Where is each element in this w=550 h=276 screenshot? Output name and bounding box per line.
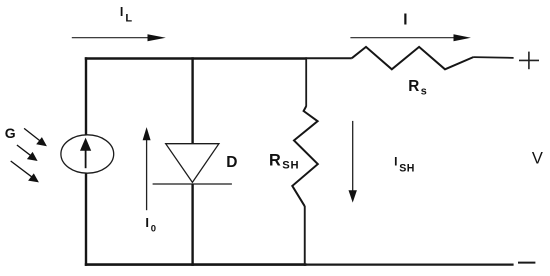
I current arrow: [350, 37, 458, 39]
wire shunt branch vertical bottom: [304, 206, 306, 266]
wire top left horizontal (node A to diode to shunt node): [85, 57, 307, 60]
wire shunt branch vertical top: [305, 57, 307, 106]
wire diode branch vertical top: [191, 57, 193, 144]
terminal plus sign: [519, 59, 539, 61]
ISH current arrow: [352, 121, 354, 192]
svg-text:R: R: [408, 78, 419, 95]
diode D triangle: [166, 144, 219, 183]
svg-text:G: G: [5, 125, 16, 141]
wire left vertical above current source: [85, 57, 87, 135]
current source arrow shaft: [85, 149, 87, 168]
svg-text:D: D: [226, 154, 237, 171]
current source circle: [61, 135, 114, 173]
svg-text:I: I: [403, 11, 407, 28]
svg-text:0: 0: [151, 223, 156, 234]
wire left vertical below current source: [85, 173, 87, 266]
svg-text:V: V: [532, 149, 543, 167]
svg-text:I: I: [394, 155, 397, 169]
svg-text:SH: SH: [282, 160, 299, 172]
svg-text:SH: SH: [399, 162, 415, 174]
irradiance arrow 2: [17, 145, 32, 156]
svg-text:I: I: [120, 5, 123, 19]
diode cathode bar: [153, 183, 232, 185]
irradiance arrow 1: [24, 128, 41, 141]
current source arrowhead: [80, 138, 91, 151]
IL current arrow: [72, 37, 153, 39]
I0 current arrow: [146, 139, 148, 210]
wire diode branch vertical bottom: [191, 184, 193, 266]
svg-text:I: I: [145, 215, 149, 230]
svg-text:s: s: [421, 85, 427, 97]
resistor RSH zigzag: [292, 106, 318, 206]
svg-text:L: L: [125, 12, 132, 24]
wire top middle horizontal (shunt node to Rs): [307, 57, 352, 59]
terminal minus sign: [518, 262, 535, 264]
wire bottom horizontal left: [85, 263, 307, 266]
irradiance arrow 3: [11, 161, 33, 178]
wire top right horizontal (Rs to + terminal): [474, 56, 514, 58]
wire bottom horizontal right: [307, 264, 514, 266]
svg-text:R: R: [269, 151, 281, 169]
resistor Rs zigzag: [352, 47, 474, 69]
